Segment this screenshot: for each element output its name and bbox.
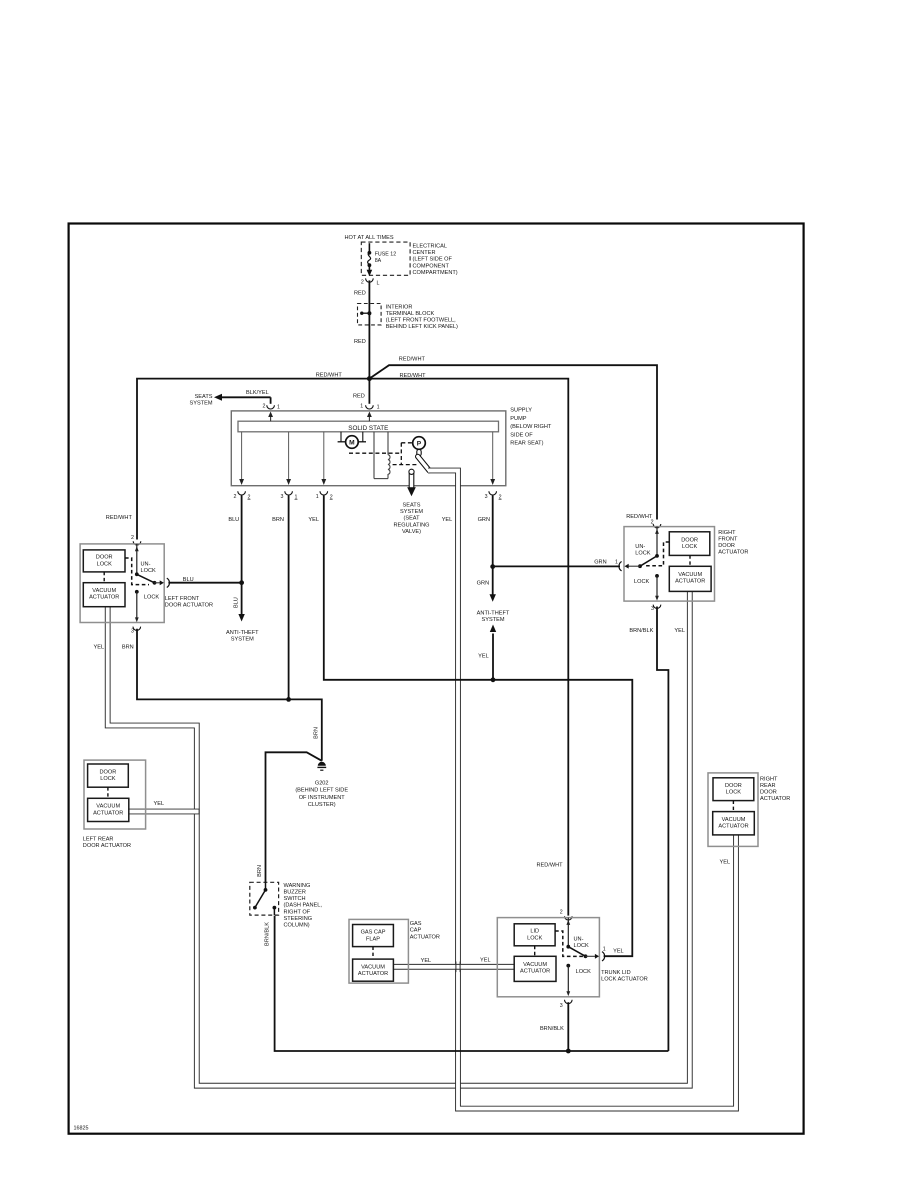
svg-text:SWITCH: SWITCH	[284, 896, 306, 902]
svg-text:RED: RED	[354, 290, 366, 296]
svg-text:LOCK: LOCK	[726, 790, 742, 796]
svg-text:DOOR: DOOR	[718, 543, 735, 549]
svg-text:UN-: UN-	[574, 937, 584, 943]
svg-text:ACTUATOR: ACTUATOR	[760, 796, 790, 802]
svg-text:LOCK: LOCK	[634, 579, 650, 585]
svg-text:2: 2	[234, 494, 237, 500]
svg-text:SYSTEM: SYSTEM	[231, 636, 254, 642]
svg-text:YEL: YEL	[94, 645, 105, 651]
svg-text:CAP: CAP	[410, 928, 422, 934]
svg-text:RIGHT: RIGHT	[718, 530, 736, 536]
svg-text:G202: G202	[315, 780, 329, 786]
svg-text:8A: 8A	[375, 258, 382, 264]
svg-text:YEL: YEL	[613, 949, 624, 955]
svg-text:LOCK: LOCK	[141, 568, 157, 574]
svg-text:BRN/BLK: BRN/BLK	[540, 1026, 564, 1032]
svg-text:SYSTEM: SYSTEM	[189, 400, 212, 406]
svg-text:VACUUM: VACUUM	[92, 588, 116, 594]
svg-text:ACTUATOR: ACTUATOR	[675, 579, 705, 585]
svg-text:SOLID STATE: SOLID STATE	[348, 425, 388, 432]
svg-text:ANTI-THEFT: ANTI-THEFT	[477, 610, 510, 616]
svg-text:ACTUATOR: ACTUATOR	[718, 550, 748, 556]
svg-text:BUZZER: BUZZER	[284, 890, 306, 896]
svg-text:ACTUATOR: ACTUATOR	[93, 810, 123, 816]
svg-text:2: 2	[560, 910, 563, 916]
svg-text:LOCK: LOCK	[144, 595, 160, 601]
svg-text:BLK/YEL: BLK/YEL	[246, 390, 269, 396]
svg-text:VACUUM: VACUUM	[678, 572, 702, 578]
svg-text:DOOR: DOOR	[96, 555, 113, 561]
svg-text:RED/WHT: RED/WHT	[400, 373, 427, 379]
svg-text:1: 1	[377, 404, 380, 410]
svg-text:1: 1	[277, 404, 280, 410]
svg-text:RIGHT OF: RIGHT OF	[284, 909, 311, 915]
svg-text:SIDE OF: SIDE OF	[510, 432, 533, 438]
svg-text:1: 1	[295, 494, 298, 500]
svg-text:DOOR ACTUATOR: DOOR ACTUATOR	[165, 602, 213, 608]
svg-text:INTERIOR: INTERIOR	[386, 304, 413, 310]
svg-text:LOCK: LOCK	[576, 969, 592, 975]
svg-text:2: 2	[330, 494, 333, 500]
svg-text:3: 3	[560, 1003, 563, 1009]
svg-text:(SEAT: (SEAT	[403, 516, 420, 522]
svg-text:3: 3	[485, 494, 488, 500]
svg-text:ACTUATOR: ACTUATOR	[358, 971, 388, 977]
svg-text:BRN: BRN	[272, 517, 284, 523]
svg-text:BLU: BLU	[228, 517, 239, 523]
svg-text:UN-: UN-	[635, 544, 645, 550]
svg-text:YEL: YEL	[308, 517, 319, 523]
svg-text:LOCK: LOCK	[527, 935, 543, 941]
svg-text:(BELOW RIGHT: (BELOW RIGHT	[510, 424, 552, 430]
svg-text:3: 3	[131, 629, 134, 635]
svg-text:BEHIND LEFT KICK PANEL): BEHIND LEFT KICK PANEL)	[386, 324, 458, 330]
svg-text:DOOR: DOOR	[760, 790, 777, 796]
svg-text:M: M	[349, 440, 355, 447]
svg-text:VACUUM: VACUUM	[361, 964, 385, 970]
svg-text:ACTUATOR: ACTUATOR	[718, 824, 748, 830]
svg-text:BLU: BLU	[234, 597, 240, 608]
svg-text:BRN/BLK: BRN/BLK	[265, 922, 271, 946]
svg-text:LEFT REAR: LEFT REAR	[83, 836, 114, 842]
svg-text:2: 2	[263, 404, 266, 410]
svg-text:COLUMN): COLUMN)	[284, 923, 310, 929]
svg-text:(LEFT FRONT FOOTWELL,: (LEFT FRONT FOOTWELL,	[386, 318, 456, 324]
svg-text:YEL: YEL	[421, 958, 432, 964]
svg-text:VACUUM: VACUUM	[523, 962, 547, 968]
svg-text:2: 2	[361, 279, 364, 285]
svg-text:CLUSTER): CLUSTER)	[308, 802, 336, 808]
svg-text:GRN: GRN	[594, 560, 606, 566]
svg-text:YEL: YEL	[480, 958, 491, 964]
svg-text:VACUUM: VACUUM	[722, 817, 746, 823]
svg-text:ACTUATOR: ACTUATOR	[410, 934, 440, 940]
svg-text:DOOR ACTUATOR: DOOR ACTUATOR	[83, 843, 131, 849]
svg-text:TRUNK LID: TRUNK LID	[601, 970, 631, 976]
svg-text:FLAP: FLAP	[366, 936, 380, 942]
svg-text:LOCK: LOCK	[635, 551, 651, 557]
svg-text:ACTUATOR: ACTUATOR	[520, 969, 550, 975]
svg-text:RED/WHT: RED/WHT	[399, 357, 426, 363]
svg-text:2: 2	[131, 535, 134, 541]
svg-text:UN-: UN-	[141, 562, 151, 568]
svg-text:3: 3	[651, 606, 654, 612]
svg-text:YEL: YEL	[674, 628, 685, 634]
svg-text:CENTER: CENTER	[413, 250, 436, 256]
svg-text:BRN: BRN	[257, 865, 263, 877]
svg-text:YEL: YEL	[442, 517, 453, 523]
svg-text:LOCK: LOCK	[574, 943, 590, 949]
svg-text:DOOR: DOOR	[100, 769, 117, 775]
svg-text:BLU: BLU	[183, 577, 194, 583]
svg-text:LOCK ACTUATOR: LOCK ACTUATOR	[601, 977, 648, 983]
svg-text:DOOR: DOOR	[725, 783, 742, 789]
svg-text:RED: RED	[353, 393, 365, 399]
svg-text:RED/WHT: RED/WHT	[536, 862, 563, 868]
svg-text:(DASH PANEL,: (DASH PANEL,	[284, 903, 323, 909]
svg-text:L: L	[377, 280, 380, 286]
svg-text:SYSTEM: SYSTEM	[400, 509, 423, 515]
svg-text:YEL: YEL	[478, 653, 489, 659]
svg-text:LOCK: LOCK	[97, 561, 113, 567]
svg-text:FRONT: FRONT	[718, 537, 738, 543]
svg-text:LEFT FRONT: LEFT FRONT	[165, 596, 200, 602]
svg-text:BRN/BLK: BRN/BLK	[629, 628, 653, 634]
svg-text:LID: LID	[530, 929, 539, 935]
svg-text:HOT AT ALL TIMES: HOT AT ALL TIMES	[345, 235, 394, 241]
svg-text:BRN: BRN	[313, 727, 319, 739]
svg-text:GAS: GAS	[410, 921, 422, 927]
svg-text:RED/WHT: RED/WHT	[316, 373, 343, 379]
svg-text:LOCK: LOCK	[682, 544, 698, 550]
svg-text:BRN: BRN	[122, 645, 134, 651]
svg-text:ACTUATOR: ACTUATOR	[89, 595, 119, 601]
svg-text:3: 3	[281, 494, 284, 500]
svg-text:SUPPLY: SUPPLY	[510, 408, 532, 414]
svg-text:REAR: REAR	[760, 783, 776, 789]
svg-text:SEATS: SEATS	[403, 503, 421, 509]
svg-text:ANTI-THEFT: ANTI-THEFT	[226, 630, 259, 636]
svg-text:VALVE): VALVE)	[402, 529, 421, 535]
svg-text:1: 1	[603, 947, 606, 953]
svg-text:GRN: GRN	[477, 580, 489, 586]
svg-text:PUMP: PUMP	[510, 416, 526, 422]
svg-text:RIGHT: RIGHT	[760, 776, 778, 782]
svg-text:REAR SEAT): REAR SEAT)	[510, 441, 543, 447]
svg-text:1: 1	[615, 560, 618, 566]
svg-text:LOCK: LOCK	[100, 776, 116, 782]
svg-text:FUSE 12: FUSE 12	[375, 251, 397, 257]
svg-text:SYSTEM: SYSTEM	[481, 617, 504, 623]
svg-text:COMPONENT: COMPONENT	[413, 263, 450, 269]
svg-text:RED/WHT: RED/WHT	[106, 515, 133, 521]
svg-text:YEL: YEL	[154, 801, 165, 807]
svg-text:1: 1	[316, 494, 319, 500]
svg-text:1: 1	[360, 404, 363, 410]
svg-text:SEATS: SEATS	[195, 394, 213, 400]
svg-text:2: 2	[248, 494, 251, 500]
svg-text:2: 2	[499, 494, 502, 500]
svg-text:WARNING: WARNING	[284, 883, 311, 889]
svg-text:COMPARTMENT): COMPARTMENT)	[413, 270, 458, 276]
svg-text:RED: RED	[354, 339, 366, 345]
svg-text:REGULATING: REGULATING	[394, 522, 430, 528]
svg-text:GRN: GRN	[478, 517, 490, 523]
svg-text:YEL: YEL	[720, 860, 731, 866]
svg-text:DOOR: DOOR	[681, 538, 698, 544]
svg-text:RED/WHT: RED/WHT	[626, 514, 653, 520]
svg-text:(LEFT SIDE OF: (LEFT SIDE OF	[413, 257, 453, 263]
svg-text:GAS CAP: GAS CAP	[361, 930, 386, 936]
svg-text:VACUUM: VACUUM	[96, 804, 120, 810]
svg-text:ELECTRICAL: ELECTRICAL	[413, 244, 448, 250]
svg-text:OF INSTRUMENT: OF INSTRUMENT	[299, 795, 346, 801]
svg-text:P: P	[417, 441, 422, 448]
svg-text:TERMINAL BLOCK: TERMINAL BLOCK	[386, 311, 435, 317]
svg-text:16825: 16825	[74, 1126, 89, 1132]
svg-text:(BEHIND LEFT SIDE: (BEHIND LEFT SIDE	[295, 788, 348, 794]
svg-text:STEERING: STEERING	[284, 916, 313, 922]
